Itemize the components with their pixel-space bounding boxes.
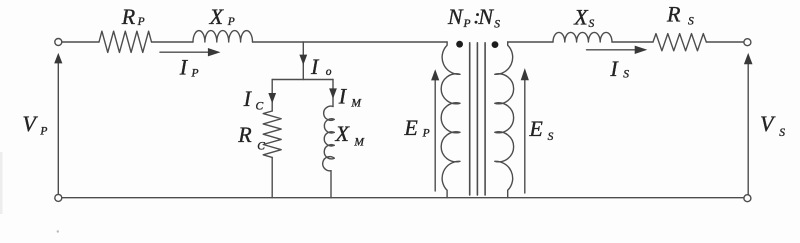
arrowhead I_C (down): [268, 93, 276, 103]
wire R_S to top-right terminal: [706, 41, 744, 43]
arrowhead E_S (up): [521, 68, 529, 80]
svg-text:E: E: [528, 116, 543, 141]
svg-text:M: M: [350, 97, 362, 109]
wire V_P arrow shaft: [57, 63, 59, 194]
wire I_P arrow shaft: [160, 51, 209, 53]
resistor R_S: [653, 34, 706, 51]
svg-text:P: P: [463, 18, 471, 30]
svg-text:X: X: [573, 5, 589, 30]
wire bottom rail: [62, 197, 744, 199]
svg-text:o: o: [326, 66, 332, 78]
arrowhead I_P (right): [208, 48, 221, 56]
wire shunt vertical from node to split bar: [302, 42, 304, 80]
svg-text:S: S: [779, 127, 785, 139]
svg-text:V: V: [22, 111, 38, 136]
svg-text:S: S: [623, 68, 629, 80]
wire I_S arrow shaft: [587, 49, 637, 51]
svg-text:R: R: [666, 1, 681, 26]
svg-text:P: P: [137, 16, 145, 28]
wire left shunt branch upper: [271, 80, 273, 112]
svg-text:S: S: [548, 131, 554, 143]
wire E_P arrow shaft: [434, 80, 436, 191]
wire shunt split bar: [272, 79, 333, 81]
svg-text:E: E: [403, 115, 418, 140]
wire X_S to R_S: [612, 41, 653, 43]
transformer primary winding: [441, 42, 460, 198]
wire left shunt branch lower to bottom rail: [271, 157, 273, 197]
arrowhead I_S (right): [635, 46, 648, 54]
terminal circle top-left: [55, 39, 62, 46]
inductor X_P: [193, 31, 252, 42]
svg-text:C: C: [256, 100, 264, 112]
svg-text:S: S: [494, 18, 500, 30]
wire right shunt branch lower to bottom rail: [330, 171, 332, 198]
svg-text:R: R: [121, 4, 136, 29]
wire E_S arrow shaft: [524, 80, 526, 193]
svg-text:V: V: [760, 111, 776, 136]
svg-text:I: I: [338, 83, 348, 108]
svg-text:P: P: [39, 126, 47, 138]
svg-text:C: C: [257, 141, 265, 153]
wire top-left terminal to R_P: [62, 41, 99, 43]
svg-text:N: N: [447, 4, 464, 29]
transformer polarity dot primary: [456, 41, 463, 48]
transformer polarity dot secondary: [492, 41, 499, 48]
svg-text:I: I: [243, 86, 253, 111]
speck artifact below bottom-left terminal: [57, 230, 59, 232]
transformer secondary winding: [495, 42, 514, 198]
svg-text:X: X: [209, 4, 225, 29]
svg-text:P: P: [422, 127, 430, 139]
svg-text:X: X: [335, 121, 351, 146]
inductor X_M: [323, 106, 335, 171]
arrowhead V_S (up): [744, 53, 753, 64]
wire transformer secondary to X_S: [508, 41, 553, 43]
svg-text:I: I: [179, 54, 189, 79]
svg-text:N: N: [477, 4, 494, 29]
transformer core line 1: [469, 43, 471, 195]
wire R_P to X_P: [152, 41, 194, 43]
wire X_P to transformer primary (through node of shunt branch): [253, 41, 448, 43]
wire V_S arrow shaft: [747, 64, 749, 195]
svg-text:S: S: [589, 18, 595, 30]
svg-text:I: I: [609, 56, 619, 81]
svg-text:M: M: [353, 136, 365, 148]
svg-text:S: S: [688, 16, 694, 28]
transformer core line 2: [476, 43, 478, 195]
arrowhead I_M (down): [329, 88, 337, 98]
wire right shunt branch upper: [332, 80, 334, 107]
transformer core line 3: [484, 43, 486, 195]
terminal circle top-right: [744, 39, 751, 46]
resistor R_C: [263, 111, 281, 157]
scan smudge artifact at left edge: [0, 152, 3, 214]
inductor X_S: [553, 32, 612, 42]
svg-text:I: I: [310, 54, 320, 79]
terminal circle bottom-right: [744, 195, 751, 202]
terminal circle bottom-left: [55, 194, 62, 201]
svg-text:P: P: [227, 16, 235, 28]
arrowhead E_P (up): [431, 69, 439, 80]
arrowhead I_o (down): [299, 55, 307, 65]
resistor R_P: [99, 31, 152, 52]
svg-text:P: P: [191, 68, 199, 80]
svg-text:R: R: [237, 122, 252, 147]
arrowhead V_P (up): [54, 53, 62, 64]
